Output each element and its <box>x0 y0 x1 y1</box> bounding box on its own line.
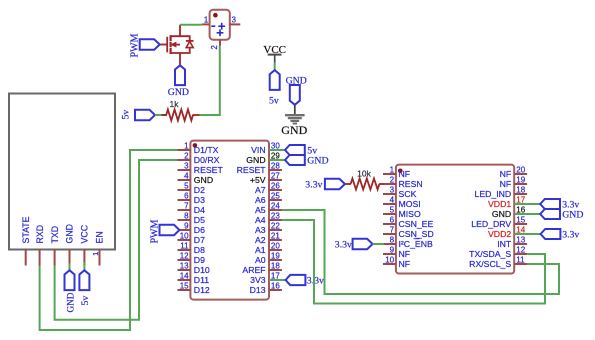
Q1 body diode branch <box>180 36 190 53</box>
svg-text:A3: A3 <box>255 225 266 235</box>
wire U1 pin30 to 5v flag <box>269 149 285 151</box>
svg-text:4: 4 <box>390 196 395 205</box>
svg-text:SCK: SCK <box>399 189 417 199</box>
U2 pin 15 stub <box>514 223 527 225</box>
svg-text:AREF: AREF <box>242 265 265 275</box>
Q1 gate lead <box>160 44 168 46</box>
wire Q1 drain to motor pin1 <box>180 24 202 26</box>
svg-text:LED_DRV: LED_DRV <box>471 219 511 229</box>
motor M1 pin3 stub <box>230 23 241 25</box>
power VCC bar <box>268 54 282 56</box>
flag GND at U2 pin16 <box>540 209 560 219</box>
svg-text:3V3: 3V3 <box>250 275 266 285</box>
svg-text:20: 20 <box>516 166 525 175</box>
svg-text:2: 2 <box>210 45 219 49</box>
flag 5v under VCC <box>270 70 280 90</box>
U1 pin 13 stub <box>178 269 191 271</box>
svg-text:TX/SDA_S: TX/SDA_S <box>469 249 511 259</box>
svg-text:NF: NF <box>399 169 411 179</box>
svg-text:16: 16 <box>271 282 280 291</box>
svg-text:NF: NF <box>399 259 411 269</box>
svg-text:A1: A1 <box>255 245 266 255</box>
svg-text:21: 21 <box>271 232 280 241</box>
wire RXD to D1/TX <box>40 150 179 330</box>
flag 5v left <box>135 110 155 121</box>
wire 5v to R1 <box>155 114 166 116</box>
U2 pin 11 stub <box>514 263 527 265</box>
svg-text:RX/SCL_S: RX/SCL_S <box>469 259 511 269</box>
svg-text:19: 19 <box>516 176 525 185</box>
ground symbol bar4 <box>293 123 297 125</box>
U1 pin 20 stub <box>269 249 282 251</box>
motor M1 pin1 dot <box>213 13 218 18</box>
svg-text:15: 15 <box>516 216 525 225</box>
svg-text:10: 10 <box>180 232 189 241</box>
U1 pin 17 stub <box>269 279 282 281</box>
svg-text:3: 3 <box>184 162 189 171</box>
svg-text:VCC: VCC <box>80 224 90 243</box>
lead R1 left <box>162 114 168 116</box>
motor M1 pin1 stub <box>202 23 210 25</box>
svg-text:7: 7 <box>390 226 395 235</box>
svg-text:VIN: VIN <box>251 145 265 155</box>
svg-text:GND: GND <box>194 175 213 185</box>
wire U2 pin16 to GND flag <box>514 213 540 215</box>
U1 pin 16 stub <box>269 289 282 291</box>
wire U2 pin17 to 3.3v flag <box>514 203 540 205</box>
wire U1 pin29 to GND flag <box>269 159 285 161</box>
Q1 diode bar <box>186 40 194 42</box>
svg-text:D3: D3 <box>194 195 205 205</box>
lead R2 right <box>379 183 384 185</box>
svg-text:14: 14 <box>180 272 189 281</box>
flag 3.3v at U1 pin17 <box>286 275 306 285</box>
svg-text:23: 23 <box>271 212 280 221</box>
ground symbol bar1 <box>285 114 305 116</box>
svg-text:RESN: RESN <box>399 179 423 189</box>
svg-text:GND: GND <box>65 292 75 312</box>
motor M1 plus sign 1 <box>218 25 225 27</box>
U1 pin 23 stub <box>269 219 282 221</box>
svg-text:25: 25 <box>271 192 280 201</box>
svg-text:NF: NF <box>399 249 411 259</box>
U2 pin 17 stub <box>514 203 527 205</box>
svg-text:D1/TX: D1/TX <box>194 145 219 155</box>
motor M1 pin2 stub <box>219 40 221 46</box>
U1 pin 26 stub <box>269 189 282 191</box>
U2 pin 10 stub <box>383 263 396 265</box>
Q1 body arrow head <box>171 42 176 47</box>
U1 pin 25 stub <box>269 199 282 201</box>
svg-text:3.3v: 3.3v <box>305 180 322 191</box>
svg-text:I²C_ENB: I²C_ENB <box>399 239 433 249</box>
svg-text:D13: D13 <box>250 285 266 295</box>
flag 5v under module <box>79 270 89 290</box>
U2 pin 12 stub <box>514 253 527 255</box>
svg-text:28: 28 <box>271 162 280 171</box>
svg-text:5: 5 <box>184 182 189 191</box>
svg-text:D0/RX: D0/RX <box>194 155 220 165</box>
svg-text:EN: EN <box>95 231 105 243</box>
flag PWM at Q1 <box>140 39 160 50</box>
svg-text:9: 9 <box>390 246 395 255</box>
svg-text:13: 13 <box>180 262 189 271</box>
U1 pin 12 stub <box>178 259 191 261</box>
wire flag to earth <box>294 105 296 114</box>
motor M1 body <box>210 10 230 40</box>
svg-text:STATE: STATE <box>21 216 31 243</box>
svg-text:1k: 1k <box>170 99 180 109</box>
U2 pin 13 stub <box>514 243 527 245</box>
svg-text:A5: A5 <box>255 205 266 215</box>
svg-text:GND: GND <box>492 209 511 219</box>
U1 pin 21 stub <box>269 239 282 241</box>
flag 3.3v at R2 <box>325 179 345 190</box>
svg-text:D10: D10 <box>194 265 210 275</box>
U2 pin 9 stub <box>383 253 396 255</box>
svg-text:TXD: TXD <box>50 226 60 244</box>
wire U1 pin17 to 3.3v flag <box>269 279 286 281</box>
flag PWM at U1 pin9 <box>160 225 180 236</box>
U1 pin 30 stub <box>269 149 282 151</box>
wire U2 pin14 to 3.3v flag <box>514 233 540 235</box>
svg-text:2: 2 <box>390 176 395 185</box>
svg-text:3.3v: 3.3v <box>335 240 352 251</box>
svg-text:18: 18 <box>516 186 525 195</box>
U2 pin 3 stub <box>383 193 396 195</box>
U2 pin 5 stub <box>383 213 396 215</box>
svg-text:5v: 5v <box>80 296 91 306</box>
svg-text:5v: 5v <box>269 95 279 106</box>
svg-text:VDD2: VDD2 <box>488 229 511 239</box>
svg-text:18: 18 <box>271 262 280 271</box>
svg-text:22: 22 <box>271 222 280 231</box>
svg-text:5: 5 <box>390 206 395 215</box>
svg-text:10k: 10k <box>357 169 371 179</box>
lead R2 left <box>345 183 351 185</box>
svg-text:A7: A7 <box>255 185 266 195</box>
svg-text:13: 13 <box>516 236 525 245</box>
svg-text:VDD1: VDD1 <box>488 199 511 209</box>
ic U1 body <box>190 141 269 300</box>
module pin stub RXD <box>39 249 41 265</box>
power VCC stem <box>274 55 276 63</box>
wire TXD to D0/RX <box>55 160 179 320</box>
module pin stub EN <box>99 249 101 265</box>
U2 pin 20 stub <box>514 173 527 175</box>
svg-text:6: 6 <box>390 216 395 225</box>
U1 pin 15 stub <box>178 289 191 291</box>
U1 pin 4 stub <box>178 179 191 181</box>
U2 pin 1 stub <box>383 173 396 175</box>
svg-text:4: 4 <box>184 172 189 181</box>
svg-text:GND: GND <box>246 155 265 165</box>
svg-text:20: 20 <box>271 242 280 251</box>
wire 3.3v flag to U2 pin8 <box>373 243 384 245</box>
U2 pin 8 stub <box>383 243 396 245</box>
ground symbol bar2 <box>288 117 302 119</box>
Q1 channel seg top <box>170 35 172 41</box>
U2 pin 2 stub <box>383 183 396 185</box>
svg-text:A4: A4 <box>255 215 266 225</box>
wire A5 to RX/SCL_S <box>282 210 559 294</box>
svg-text:1: 1 <box>204 15 208 24</box>
svg-text:RESET: RESET <box>237 165 267 175</box>
U1 pin 5 stub <box>178 189 191 191</box>
svg-text:3: 3 <box>232 15 236 24</box>
svg-text:MISO: MISO <box>399 209 421 219</box>
svg-text:12: 12 <box>180 252 189 261</box>
flag 3.3v at U2 pin8 <box>353 239 373 250</box>
svg-text:GND: GND <box>281 123 307 137</box>
wire A4 to TX/SDA_S <box>282 220 545 304</box>
U1 pin 11 stub <box>178 249 191 251</box>
U1 pin 22 stub <box>269 229 282 231</box>
svg-text:GND: GND <box>65 224 75 244</box>
svg-text:INT: INT <box>497 239 512 249</box>
flag 5v at U1 pin30 <box>285 145 305 155</box>
svg-text:7: 7 <box>184 202 189 211</box>
svg-text:1: 1 <box>91 252 100 256</box>
U1 pin 2 stub <box>178 159 191 161</box>
resistor R1 1k <box>166 110 193 121</box>
svg-text:D5: D5 <box>194 215 205 225</box>
svg-text:1: 1 <box>184 142 189 151</box>
Q1 channel seg bot <box>170 48 172 54</box>
svg-text:RESET: RESET <box>194 165 224 175</box>
U2 pin 4 stub <box>383 203 396 205</box>
flag GND pointing down <box>290 85 300 105</box>
U1 pin 18 stub <box>269 269 282 271</box>
svg-text:RXD: RXD <box>35 225 45 244</box>
svg-text:27: 27 <box>271 172 280 181</box>
Q1 gate bar <box>166 37 168 53</box>
svg-text:D2: D2 <box>194 185 205 195</box>
svg-text:2: 2 <box>184 152 189 161</box>
svg-text:5v: 5v <box>120 110 131 120</box>
ground symbol bar3 <box>290 120 299 122</box>
flag GND at Q1 source <box>175 65 185 85</box>
flag GND at U1 pin29 <box>285 155 305 165</box>
svg-text:15: 15 <box>180 282 189 291</box>
ic U2 pin1 dot <box>398 169 403 174</box>
motor M1 plus sign 2 <box>217 32 224 34</box>
U2 pin 6 stub <box>383 223 396 225</box>
svg-text:10: 10 <box>385 256 394 265</box>
module pin stub STATE <box>25 249 27 265</box>
U1 pin 9 stub <box>178 229 191 231</box>
svg-text:12: 12 <box>516 246 525 255</box>
U1 pin 7 stub <box>178 209 191 211</box>
module pin stub TXD <box>54 249 56 265</box>
U2 pin 16 stub <box>514 213 527 215</box>
svg-text:GND: GND <box>307 156 328 167</box>
svg-text:3.3v: 3.3v <box>562 229 579 240</box>
U1 pin 1 stub <box>178 149 191 151</box>
svg-text:A6: A6 <box>255 195 266 205</box>
U1 pin 27 stub <box>269 179 282 181</box>
svg-text:NF: NF <box>500 169 512 179</box>
U1 pin 14 stub <box>178 279 191 281</box>
wire R1 to motor pin2 <box>200 45 220 115</box>
Q1 diode triangle <box>186 41 193 47</box>
svg-text:8: 8 <box>184 212 189 221</box>
U1 pin 24 stub <box>269 209 282 211</box>
U1 pin 3 stub <box>178 169 191 171</box>
svg-text:1: 1 <box>390 166 395 175</box>
U2 pin 18 stub <box>514 193 527 195</box>
U1 pin 6 stub <box>178 199 191 201</box>
svg-text:D8: D8 <box>194 245 205 255</box>
svg-text:CSN_SD: CSN_SD <box>399 229 434 239</box>
Q1 source link <box>171 53 180 65</box>
resistor R2 10k <box>351 179 380 190</box>
U1 pin 28 stub <box>269 169 282 171</box>
U2 pin 7 stub <box>383 233 396 235</box>
svg-text:8: 8 <box>390 236 395 245</box>
U1 pin 8 stub <box>178 219 191 221</box>
svg-text:MOSI: MOSI <box>399 199 421 209</box>
svg-text:D6: D6 <box>194 225 205 235</box>
svg-text:CSN_EE: CSN_EE <box>399 219 434 229</box>
svg-text:3.3v: 3.3v <box>307 275 324 286</box>
Q1 channel seg mid <box>170 42 172 47</box>
svg-text:D12: D12 <box>194 285 210 295</box>
module pin stub VCC <box>83 249 85 265</box>
svg-text:19: 19 <box>271 252 280 261</box>
ic U2 body <box>396 165 514 274</box>
svg-text:GND: GND <box>168 87 189 98</box>
svg-text:+5V: +5V <box>250 175 266 185</box>
svg-text:3: 3 <box>390 186 395 195</box>
U1 pin 19 stub <box>269 259 282 261</box>
svg-text:11: 11 <box>180 242 189 251</box>
motor M1 minus sign <box>211 25 215 27</box>
svg-text:D9: D9 <box>194 255 205 265</box>
U2 pin 8 ENB overline <box>414 238 420 240</box>
svg-text:11: 11 <box>516 256 525 265</box>
svg-text:26: 26 <box>271 182 280 191</box>
flag GND under module <box>65 270 75 290</box>
U2 pin 19 stub <box>514 183 527 185</box>
svg-text:A0: A0 <box>255 255 266 265</box>
wire module GND to flag <box>69 264 71 271</box>
svg-text:D7: D7 <box>194 235 205 245</box>
flag 3.3v at U2 pin17 <box>540 199 560 209</box>
module U3 bluetooth block <box>9 94 115 250</box>
ic U1 pin1 dot <box>193 143 198 148</box>
svg-text:NF: NF <box>500 179 512 189</box>
module pin stub GND <box>69 249 71 265</box>
svg-text:9: 9 <box>184 222 189 231</box>
svg-text:A2: A2 <box>255 235 266 245</box>
U1 pin 10 stub <box>178 239 191 241</box>
flag 3.3v at U2 pin14 <box>541 229 561 239</box>
svg-text:GND: GND <box>562 210 583 221</box>
U1 pin 29 stub <box>269 159 282 161</box>
U2 pin 14 stub <box>514 233 527 235</box>
svg-text:D11: D11 <box>194 275 209 285</box>
wire VCC to 5v flag <box>274 63 276 71</box>
wire module VCC to flag <box>83 262 85 271</box>
svg-text:D4: D4 <box>194 205 205 215</box>
svg-text:6: 6 <box>184 192 189 201</box>
Q1 drain link <box>171 25 180 37</box>
svg-text:LED_IND: LED_IND <box>474 189 511 199</box>
lead R1 right <box>193 114 200 116</box>
svg-text:24: 24 <box>271 202 280 211</box>
Q1 body arrow line <box>172 44 180 46</box>
